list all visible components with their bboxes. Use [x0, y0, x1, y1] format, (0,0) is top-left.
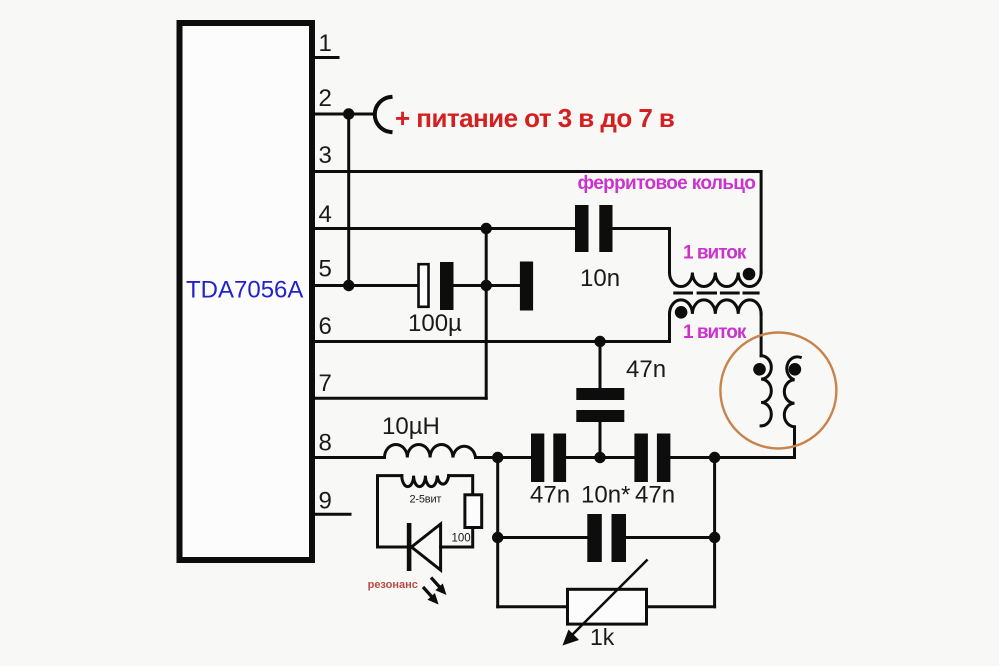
- wire inductor to caps: [476, 456, 531, 459]
- junction left mid node: [492, 532, 503, 543]
- capacitor C1 100u positive plate (hollow): [419, 264, 429, 307]
- svg-text:10n: 10n: [580, 265, 620, 292]
- pin 4 wire: [313, 227, 575, 230]
- LED light arrow 1 shaft: [431, 578, 440, 588]
- svg-text:1 виток: 1 виток: [683, 322, 747, 343]
- LED loop left side: [378, 476, 402, 547]
- svg-text:TDA7056A: TDA7056A: [186, 277, 303, 304]
- svg-text:9: 9: [319, 488, 332, 515]
- pin 9 wire: [313, 513, 350, 516]
- svg-text:+ питание от 3 в до 7 в: + питание от 3 в до 7 в: [395, 103, 674, 133]
- pin 3 wire: [313, 172, 761, 273]
- junction pin4 node: [481, 223, 492, 234]
- junction mid caps node: [594, 452, 605, 463]
- LED loop right bottom: [441, 528, 473, 548]
- LED loop top right: [449, 476, 473, 495]
- wire bottom row right: [647, 605, 715, 608]
- capacitor C1 100u negative plate: [440, 262, 454, 310]
- phase dot speaker left: [753, 363, 766, 376]
- svg-text:10µH: 10µH: [382, 413, 440, 440]
- pin 5 wire: [313, 284, 417, 287]
- svg-text:5: 5: [319, 256, 332, 283]
- resistor R1 100 body: [465, 495, 482, 528]
- capacitor C6 10n* left plate: [587, 514, 602, 562]
- wire secondary to speaker coil: [760, 314, 763, 356]
- svg-text:47n: 47n: [635, 482, 675, 509]
- junction pin2 node: [343, 108, 354, 119]
- LED light arrow 2 head: [428, 593, 439, 605]
- svg-text:3: 3: [319, 142, 332, 169]
- capacitor C6 10n* right plate: [612, 514, 627, 562]
- wire 47n vertical bottom: [599, 422, 602, 458]
- svg-text:1k: 1k: [590, 624, 615, 650]
- IC U1 TDA7056A box: [180, 23, 313, 560]
- wire pin4 after C 10n: [613, 229, 670, 273]
- svg-text:10n*: 10n*: [581, 482, 630, 509]
- capacitor C5 47n right plate: [657, 434, 671, 483]
- capacitor C4 47n left plate: [531, 434, 544, 483]
- inductor L1 10uH: [385, 445, 476, 458]
- junction 100u node: [481, 280, 492, 291]
- wire mid row left: [498, 536, 587, 539]
- svg-text:47n: 47n: [626, 356, 666, 383]
- LED loop bottom left: [378, 546, 408, 549]
- svg-text:8: 8: [319, 430, 332, 457]
- junction right mid node: [709, 532, 720, 543]
- wire between 47n and 47n caps: [567, 456, 635, 459]
- capacitor stub plate: [520, 262, 533, 311]
- pickup coil L2 2-5vit: [402, 476, 449, 487]
- LED D1 cathode bar: [407, 523, 412, 571]
- svg-text:1 виток: 1 виток: [683, 243, 747, 264]
- svg-text:100: 100: [452, 533, 471, 545]
- transformer T1 primary winding (1 vitok top): [670, 273, 762, 287]
- phase dot secondary: [675, 306, 688, 319]
- junction left branch node: [492, 452, 503, 463]
- pin 1 wire: [313, 56, 338, 59]
- svg-text:100µ: 100µ: [408, 310, 462, 337]
- wire bottom row left: [498, 605, 567, 608]
- wire node pin4 down to pin7: [485, 229, 488, 399]
- svg-text:1: 1: [319, 30, 332, 57]
- svg-text:7: 7: [319, 370, 332, 397]
- capacitor C4 47n right plate: [553, 434, 566, 483]
- capacitor C5 47n left plate: [634, 434, 648, 483]
- LED light arrow 2 shaft: [423, 587, 432, 597]
- pin 2 wire: [313, 113, 374, 116]
- svg-text:47n: 47n: [530, 482, 570, 509]
- pin 8 wire: [313, 456, 385, 459]
- wire after second 47n: [671, 456, 795, 459]
- pin 6 wire: [313, 314, 670, 342]
- transformer T1 secondary winding (1 vitok bottom): [670, 300, 762, 314]
- capacitor C2 10n left plate: [575, 205, 589, 252]
- LED light arrow 1 head: [435, 584, 446, 596]
- svg-text:6: 6: [319, 313, 332, 340]
- svg-text:резонанс: резонанс: [368, 579, 418, 591]
- phase dot speaker right: [789, 363, 802, 376]
- speaker BA1 circle: [720, 333, 836, 449]
- capacitor C3 47n top plate: [576, 388, 624, 400]
- capacitor C2 10n right plate: [599, 205, 612, 252]
- svg-text:2-5вит: 2-5вит: [410, 494, 442, 506]
- phase dot primary: [743, 268, 756, 281]
- speaker left coil: [761, 356, 771, 426]
- variable resistor arrow line: [566, 560, 647, 641]
- wire right branch down: [713, 458, 716, 607]
- wire 100u to plate: [454, 284, 520, 287]
- junction pin5 node: [343, 280, 354, 291]
- variable resistor R2 1k body: [568, 589, 647, 624]
- variable resistor arrowhead: [563, 630, 580, 646]
- wire mid row right: [626, 536, 715, 539]
- svg-text:4: 4: [319, 201, 332, 228]
- wire node bus pin2-pin5: [347, 114, 350, 286]
- pin 7 wire: [313, 397, 486, 400]
- junction right branch node: [709, 452, 720, 463]
- power connector arc: [375, 97, 391, 132]
- wire 47n vertical top: [599, 342, 602, 389]
- LED D1 triangle: [412, 524, 441, 570]
- speaker right coil: [784, 357, 800, 458]
- wire left branch down: [496, 458, 499, 607]
- capacitor C3 47n bottom plate: [576, 410, 624, 422]
- svg-text:ферритовое кольцо: ферритовое кольцо: [578, 173, 756, 194]
- svg-text:2: 2: [319, 85, 332, 112]
- transformer T1 core dashed line: [673, 292, 759, 295]
- junction pin6 node: [594, 336, 605, 347]
